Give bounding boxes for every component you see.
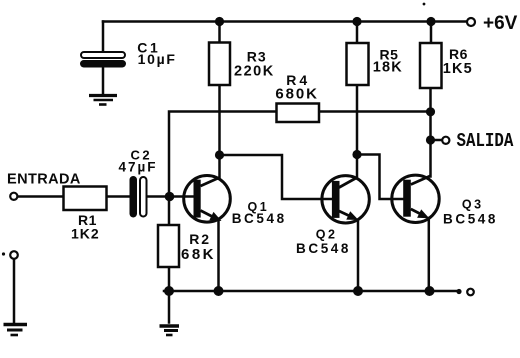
- svg-text:SALIDA: SALIDA: [457, 131, 514, 153]
- svg-text:68K: 68K: [181, 246, 216, 263]
- svg-text:18K: 18K: [373, 60, 403, 76]
- svg-text:R3: R3: [247, 48, 267, 64]
- svg-text:47µF: 47µF: [119, 160, 158, 175]
- svg-text:1K5: 1K5: [443, 61, 473, 77]
- svg-text:BC548: BC548: [232, 211, 287, 226]
- svg-text:10µF: 10µF: [138, 51, 177, 67]
- svg-text:680K: 680K: [275, 85, 318, 102]
- svg-text:BC548: BC548: [443, 211, 498, 226]
- svg-text:R2: R2: [189, 231, 211, 247]
- svg-text:R6: R6: [449, 46, 468, 62]
- svg-text:ENTRADA: ENTRADA: [7, 172, 81, 188]
- svg-text:Q3: Q3: [462, 198, 484, 212]
- svg-text:+6V: +6V: [483, 13, 518, 34]
- svg-text:1K2: 1K2: [71, 225, 100, 241]
- svg-text:220K: 220K: [234, 64, 275, 80]
- svg-text:Q2: Q2: [316, 228, 338, 242]
- svg-text:BC548: BC548: [296, 241, 351, 256]
